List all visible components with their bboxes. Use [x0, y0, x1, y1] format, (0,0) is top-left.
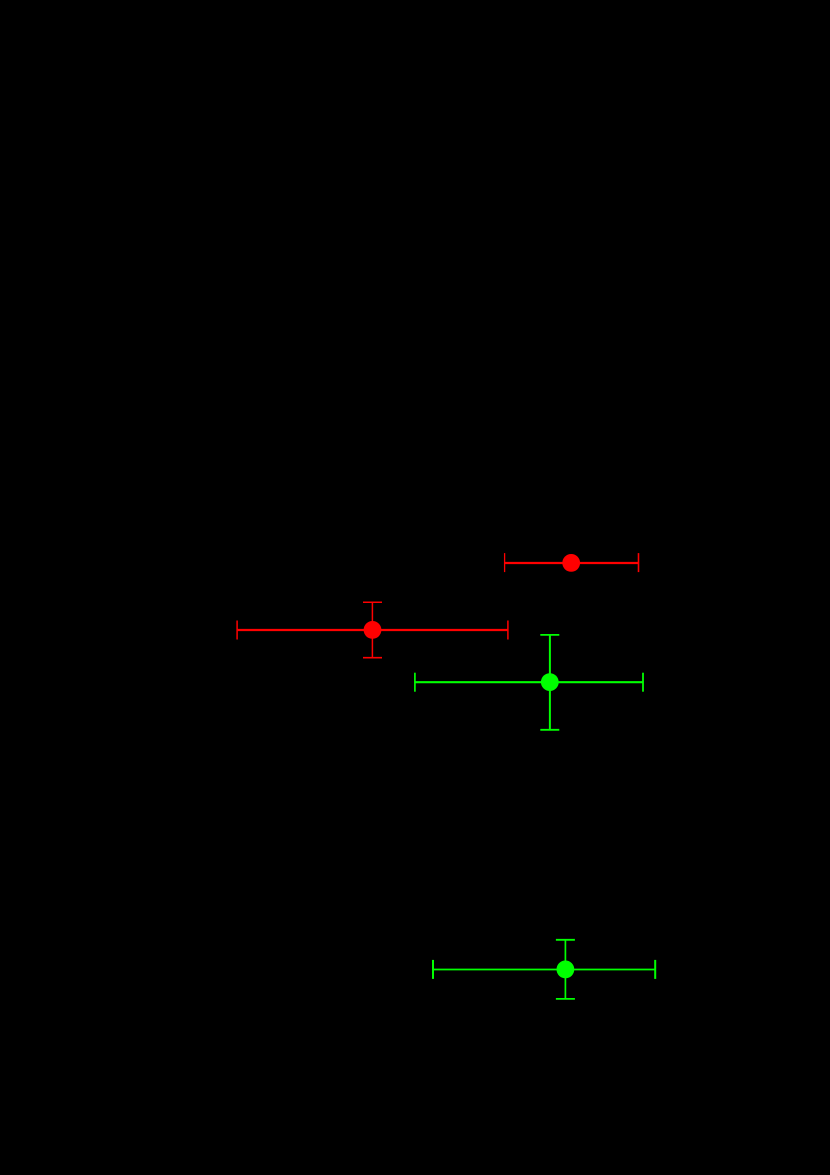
marker: data point 3 (green circle): [541, 673, 559, 691]
cap: left x-error cap P4: [432, 960, 434, 979]
marker: data point 4 (green circle): [557, 961, 575, 979]
cap: bottom y-error cap P2: [363, 657, 382, 659]
cap: top y-error cap P2: [363, 601, 382, 603]
cap: right x-error cap P3: [642, 673, 644, 692]
wire: y error bar line P2: [371, 602, 373, 658]
wire: y error bar line P3: [549, 635, 551, 730]
wire: x error bar line P3: [415, 681, 643, 683]
data point 2 (red) error bars: [237, 602, 508, 658]
cap: top y-error cap P4: [556, 939, 575, 941]
data point 4 (green) error bars: [433, 940, 655, 999]
cap: bottom y-error cap P4: [556, 998, 575, 1000]
cap: left x-error cap P3: [414, 673, 416, 692]
data point 1 (red) error bars: [505, 553, 639, 572]
cap: left x-error cap P1: [504, 553, 506, 572]
wire: x error bar line P1: [505, 562, 639, 564]
wire: x error bar line P2: [237, 629, 508, 631]
cap: right x-error cap P4: [654, 960, 656, 979]
cap: left x-error cap P2: [236, 621, 238, 640]
wire: y error bar line P4: [564, 940, 566, 999]
data point 3 (green) error bars: [415, 635, 643, 730]
wire: x error bar line P4: [433, 969, 655, 971]
cap: bottom y-error cap P3: [540, 729, 559, 731]
cap: top y-error cap P3: [540, 634, 559, 636]
cap: right x-error cap P2: [507, 621, 509, 640]
marker: data point 2 (red circle): [364, 621, 382, 639]
marker: data point 1 (red circle): [562, 554, 580, 572]
cap: right x-error cap P1: [638, 553, 640, 572]
